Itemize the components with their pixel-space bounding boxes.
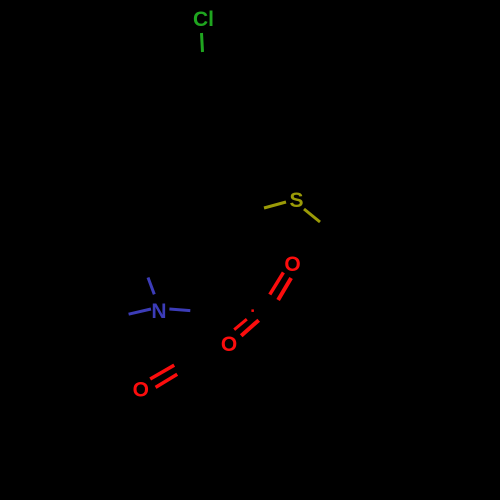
junction dot (red remnant) <box>251 309 254 312</box>
svg-text:Cl: Cl <box>193 8 214 31</box>
bond N-C up half (blue) <box>148 278 154 295</box>
svg-text:O: O <box>221 333 237 356</box>
bond C=O2 inner line half (red) <box>234 319 247 330</box>
bond C=O2 outer line half (red) <box>241 320 259 336</box>
svg-text:O: O <box>284 253 300 276</box>
bond C=O3 upper line half (red) <box>150 365 174 379</box>
svg-text:S: S <box>289 189 303 212</box>
bond C=O3 lower line half (red) <box>156 374 178 387</box>
bond C-S left half (yellow) <box>264 202 286 208</box>
bond N-CH3 left half (blue) <box>129 309 151 314</box>
svg-text:N: N <box>151 300 166 323</box>
bond Cl-C half (green) <box>202 33 203 52</box>
bond S-CH3 right half (yellow) <box>304 209 320 222</box>
bond C=O1 inner line half (red) <box>278 278 291 300</box>
bond N-C right half (blue) <box>169 309 190 311</box>
svg-text:O: O <box>133 379 149 402</box>
bond C=O1 outer line half (red) <box>270 272 284 294</box>
